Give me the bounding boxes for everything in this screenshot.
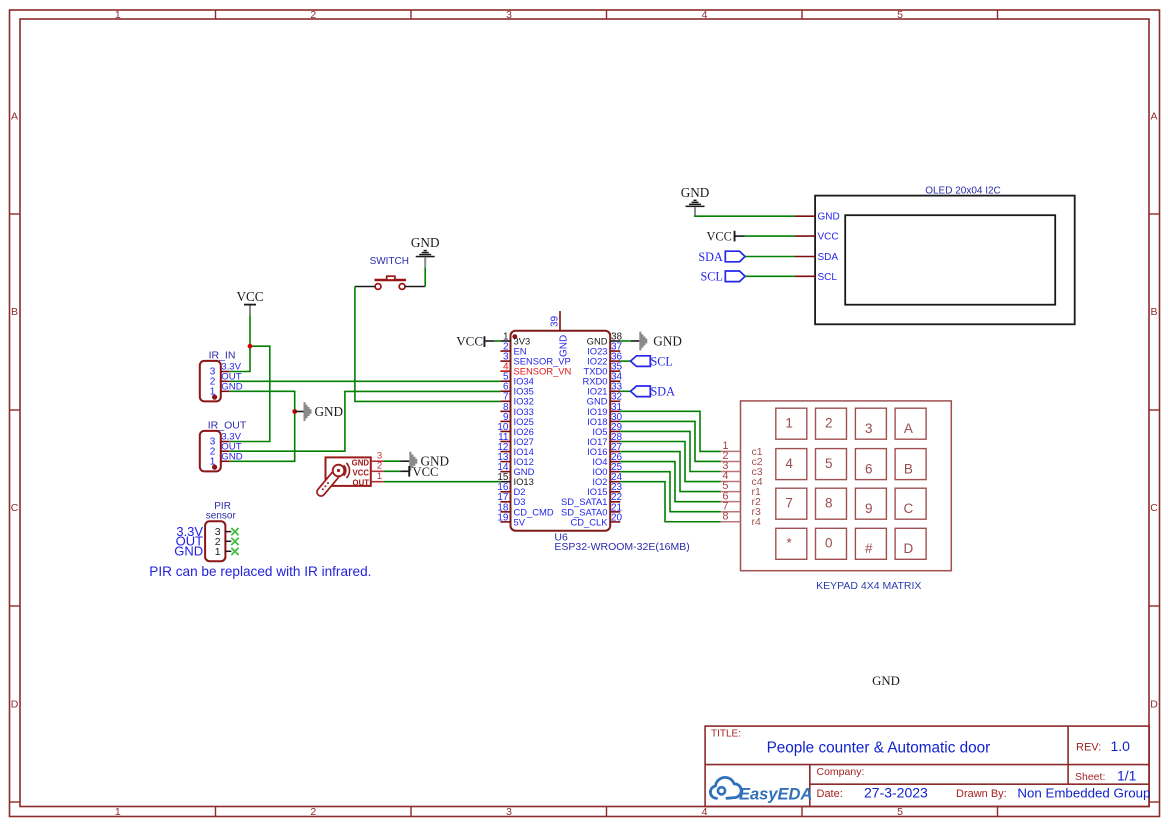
svg-text:VCC: VCC bbox=[413, 465, 439, 479]
svg-text:C: C bbox=[11, 502, 19, 514]
ground GND (OLED) bbox=[681, 185, 710, 217]
ESP32 module U6 body bbox=[511, 331, 611, 531]
wire U6 IO pin 25 to keypad pin 7 bbox=[620, 472, 721, 512]
U6 pin 28 IO17 bbox=[587, 432, 622, 447]
svg-text:C: C bbox=[904, 501, 914, 516]
power VCC (OLED) bbox=[707, 229, 736, 243]
svg-text:SCL: SCL bbox=[700, 270, 722, 284]
keypad pin 4 c4 bbox=[721, 470, 763, 488]
svg-text:SDA: SDA bbox=[818, 252, 839, 263]
key 4 bbox=[776, 449, 807, 480]
svg-text:Sheet:: Sheet: bbox=[1075, 771, 1105, 783]
svg-text:2: 2 bbox=[310, 9, 316, 21]
svg-text:SCL: SCL bbox=[651, 355, 673, 369]
svg-text:5V: 5V bbox=[514, 516, 526, 527]
wire U6 pin38 to GND bbox=[620, 340, 631, 342]
svg-text:5: 5 bbox=[825, 456, 833, 471]
U6 pin 26 IO4 bbox=[592, 452, 622, 467]
svg-text:VCC: VCC bbox=[456, 333, 483, 348]
svg-text:r4: r4 bbox=[752, 516, 761, 528]
wire U6 IO pin 24 to keypad pin 8 bbox=[620, 482, 721, 522]
key C bbox=[895, 488, 926, 519]
ground GND (above switch) bbox=[411, 235, 440, 267]
svg-text:D: D bbox=[904, 541, 914, 556]
U6 pin 2 EN bbox=[500, 341, 526, 356]
switch SWITCH bbox=[355, 256, 425, 290]
svg-text:1: 1 bbox=[215, 546, 221, 558]
svg-text:VCC: VCC bbox=[707, 229, 732, 243]
svg-text:27-3-2023: 27-3-2023 bbox=[864, 784, 928, 800]
svg-text:A: A bbox=[11, 111, 18, 123]
svg-text:sensor: sensor bbox=[206, 510, 237, 521]
U6 pin 18 CD_CMD bbox=[497, 502, 553, 517]
svg-text:GND: GND bbox=[315, 404, 344, 419]
keypad pin 2 c2 bbox=[721, 450, 763, 468]
U6 pin 36 IO22 bbox=[587, 352, 622, 367]
svg-text:Non Embedded Group: Non Embedded Group bbox=[1017, 785, 1150, 800]
svg-text:GND: GND bbox=[411, 235, 440, 250]
power VCC (PIR) bbox=[408, 465, 438, 479]
U6 pin 19 5V bbox=[497, 512, 525, 527]
svg-text:Drawn By:: Drawn By: bbox=[956, 788, 1007, 800]
U6 pin 17 D3 bbox=[497, 492, 525, 507]
net flag SCL (OLED) bbox=[700, 270, 745, 284]
svg-text:IR_IN: IR_IN bbox=[209, 350, 236, 362]
svg-text:5: 5 bbox=[897, 806, 903, 818]
wire VCC to OLED VCC bbox=[736, 235, 745, 237]
key 9 bbox=[855, 488, 886, 519]
svg-text:D: D bbox=[11, 699, 19, 711]
svg-text:*: * bbox=[786, 536, 792, 551]
svg-text:39: 39 bbox=[550, 315, 561, 327]
keypad pin 3 c3 bbox=[721, 460, 763, 478]
svg-text:1: 1 bbox=[115, 806, 121, 818]
svg-text:2: 2 bbox=[377, 461, 382, 472]
svg-text:GND: GND bbox=[653, 334, 682, 349]
svg-text:GND: GND bbox=[559, 335, 570, 357]
svg-text:3: 3 bbox=[506, 806, 512, 818]
title block bbox=[705, 726, 1150, 806]
svg-text:A: A bbox=[904, 421, 913, 436]
U6 pin 7 IO32 bbox=[500, 392, 533, 407]
wire IR_OUT OUT to U6 IO35 bbox=[230, 391, 500, 451]
EasyEDA logo bbox=[710, 777, 812, 803]
U6 pin 12 IO14 bbox=[497, 442, 533, 457]
OLED pin VCC bbox=[795, 235, 815, 237]
wire U6 IO21 to SDA flag bbox=[620, 390, 630, 392]
keypad pin 1 c1 bbox=[721, 440, 763, 458]
net flag SDA bbox=[631, 385, 676, 399]
svg-text:VCC: VCC bbox=[236, 289, 263, 304]
U6 pin 23 IO15 bbox=[587, 482, 622, 497]
U6 pin 6 IO35 bbox=[500, 382, 533, 397]
key 8 bbox=[816, 488, 847, 519]
key 7 bbox=[776, 488, 807, 519]
svg-text:1/1: 1/1 bbox=[1117, 767, 1137, 783]
svg-text:IR_OUT: IR_OUT bbox=[208, 419, 247, 431]
svg-text:GND: GND bbox=[872, 674, 900, 688]
svg-text:8: 8 bbox=[722, 510, 728, 522]
key 5 bbox=[816, 449, 847, 480]
svg-text:VCC: VCC bbox=[353, 468, 370, 477]
key 1 bbox=[776, 408, 807, 439]
wire U6 IO pin 27 to keypad pin 5 bbox=[620, 452, 721, 492]
wire VCC to U6 pin1 bbox=[485, 340, 494, 342]
ground GND (mid-left) bbox=[304, 402, 344, 421]
wire VCC symbol to junction bbox=[249, 315, 251, 346]
key # bbox=[855, 528, 886, 559]
svg-text:People counter & Automatic doo: People counter & Automatic door bbox=[767, 739, 991, 756]
wire PIR GND to GND symbol bbox=[384, 460, 401, 462]
wire SWITCH right to GND bbox=[424, 267, 426, 286]
key 6 bbox=[855, 449, 886, 480]
svg-text:3: 3 bbox=[865, 421, 873, 436]
wire U6 IO pin 30 to keypad pin 2 bbox=[620, 421, 721, 461]
key * bbox=[776, 528, 807, 559]
svg-text:1: 1 bbox=[377, 471, 382, 482]
U6 pin 5 IO34 bbox=[500, 372, 533, 387]
svg-text:1: 1 bbox=[785, 416, 793, 431]
keypad pin 6 r2 bbox=[721, 490, 761, 508]
U6 pin 20 CD_CLK bbox=[571, 512, 623, 527]
wire SWITCH to U6 IO32 bbox=[355, 287, 501, 402]
U6 pin 11 IO27 bbox=[498, 432, 534, 447]
U6 pin 24 IO2 bbox=[592, 472, 622, 487]
PIR sensor pin 1 no-connect bbox=[225, 550, 231, 552]
svg-text:5: 5 bbox=[897, 9, 903, 21]
wire junction to IR_IN pin3 bbox=[230, 346, 250, 371]
PIR pin 2 bbox=[371, 470, 384, 472]
U6 pin 25 IO0 bbox=[592, 462, 622, 477]
svg-text:#: # bbox=[865, 541, 873, 556]
svg-text:VCC: VCC bbox=[818, 232, 839, 243]
U6 pin 15 IO13 bbox=[497, 472, 533, 487]
svg-text:7: 7 bbox=[785, 496, 793, 511]
U6 pin 34 RXD0 bbox=[582, 372, 622, 387]
U6 pin 4 SENSOR_VN bbox=[500, 362, 571, 377]
ground GND (PIR) bbox=[409, 452, 449, 471]
wire junction to GND symbol bbox=[295, 411, 304, 413]
OLED pin SDA bbox=[795, 256, 815, 258]
svg-text:SDA: SDA bbox=[651, 385, 676, 399]
svg-text:9: 9 bbox=[865, 501, 873, 516]
junction VCC net bbox=[248, 344, 253, 349]
svg-text:2: 2 bbox=[310, 806, 316, 818]
U6 pin 16 D2 bbox=[497, 482, 525, 497]
wire U6 IO pin 28 to keypad pin 4 bbox=[620, 442, 721, 482]
U6 pin 27 IO16 bbox=[587, 442, 622, 457]
PIR pin 3 bbox=[371, 460, 384, 462]
U6 pin 8 IO33 bbox=[500, 402, 533, 417]
svg-text:GND: GND bbox=[352, 458, 370, 467]
PIR motion sensor module bbox=[321, 451, 384, 492]
wire PIR VCC to VCC symbol bbox=[384, 470, 401, 472]
ground GND (U6 pin38) bbox=[639, 332, 682, 351]
connector IR_OUT bbox=[200, 419, 247, 471]
svg-text:EasyEDA: EasyEDA bbox=[739, 785, 812, 803]
svg-text:4: 4 bbox=[702, 9, 708, 21]
svg-text:Date:: Date: bbox=[817, 788, 843, 800]
U6 pin 31 IO19 bbox=[587, 402, 622, 417]
wire IR_IN GND to IR_OUT GND bbox=[230, 391, 295, 461]
wire U6 IO pin 26 to keypad pin 6 bbox=[620, 462, 721, 502]
wire U6 IO pin 29 to keypad pin 3 bbox=[620, 431, 721, 471]
keypad 4x4 matrix bbox=[741, 401, 952, 571]
U6 pin 10 IO26 bbox=[497, 422, 533, 437]
svg-text:GND: GND bbox=[681, 185, 710, 200]
key 2 bbox=[816, 408, 847, 439]
svg-text:B: B bbox=[1150, 306, 1157, 318]
U6 pin 37 IO23 bbox=[587, 341, 622, 356]
keypad pin 7 r3 bbox=[721, 500, 761, 518]
svg-text:B: B bbox=[904, 461, 913, 476]
svg-text:SDA: SDA bbox=[698, 250, 723, 264]
svg-text:TITLE:: TITLE: bbox=[711, 729, 741, 740]
svg-text:KEYPAD 4X4 MATRIX: KEYPAD 4X4 MATRIX bbox=[816, 580, 921, 592]
U6 pin 38 GND bbox=[587, 331, 623, 346]
svg-text:0: 0 bbox=[825, 536, 833, 551]
svg-text:A: A bbox=[1150, 111, 1157, 123]
OLED 20x04 I2C module bbox=[795, 186, 1075, 325]
U6 pin 39 GND top bbox=[550, 311, 570, 357]
svg-text:6: 6 bbox=[865, 461, 873, 476]
U6 pin 33 IO21 bbox=[587, 382, 622, 397]
wire SCL flag to OLED SCL bbox=[745, 275, 795, 277]
keypad pin 8 r4 bbox=[721, 510, 761, 528]
svg-text:1.0: 1.0 bbox=[1111, 738, 1131, 754]
U6 pin 35 TXD0 bbox=[584, 362, 623, 377]
U6 pin 13 IO12 bbox=[497, 452, 533, 467]
svg-text:4: 4 bbox=[785, 456, 793, 471]
key B bbox=[895, 449, 926, 480]
PIR sensor pin 3 no-connect bbox=[225, 531, 231, 533]
OLED pin GND bbox=[795, 215, 815, 217]
svg-text:20: 20 bbox=[611, 512, 623, 523]
svg-text:3: 3 bbox=[506, 9, 512, 21]
svg-text:REV:: REV: bbox=[1076, 742, 1101, 754]
power VCC (U6 pin1) bbox=[456, 333, 485, 348]
key D bbox=[895, 528, 926, 559]
svg-text:1: 1 bbox=[115, 9, 121, 21]
wire GND to OLED GND bbox=[695, 215, 795, 218]
U6 pin 9 IO25 bbox=[500, 412, 533, 427]
svg-text:19: 19 bbox=[497, 512, 509, 523]
keypad pin 5 r1 bbox=[721, 480, 761, 498]
power VCC symbol (left area) bbox=[236, 289, 263, 315]
key A bbox=[895, 408, 926, 439]
net flag SDA (OLED) bbox=[698, 250, 745, 264]
net flag SCL bbox=[631, 355, 673, 369]
svg-text:C: C bbox=[1150, 502, 1158, 514]
svg-text:B: B bbox=[11, 306, 18, 318]
wire IR_IN OUT to U6 IO34 bbox=[230, 380, 500, 382]
connector PIR sensor bbox=[174, 501, 238, 561]
svg-text:OUT: OUT bbox=[353, 479, 370, 488]
svg-text:D: D bbox=[1150, 699, 1158, 711]
key 0 bbox=[816, 528, 847, 559]
svg-text:2: 2 bbox=[825, 416, 833, 431]
U6 pin 32 GND bbox=[587, 392, 623, 407]
wire PIR OUT to U6 IO13 bbox=[384, 481, 501, 483]
PIR sensor pin 2 no-connect bbox=[225, 540, 231, 542]
connector IR_IN bbox=[200, 350, 243, 402]
svg-text:4: 4 bbox=[702, 806, 708, 818]
OLED pin SCL bbox=[795, 275, 815, 277]
U6 pin 22 SD_SATA1 bbox=[561, 492, 623, 507]
wire U6 IO22 to SCL flag bbox=[620, 360, 630, 362]
svg-text:ESP32-WROOM-32E(16MB): ESP32-WROOM-32E(16MB) bbox=[554, 541, 689, 553]
U6 pin 1 3V3 bbox=[500, 331, 530, 346]
U6 pin 14 GND bbox=[497, 462, 534, 477]
svg-text:SCL: SCL bbox=[818, 272, 838, 283]
svg-text:CD_CLK: CD_CLK bbox=[571, 516, 609, 527]
wire junction to IR_OUT pin3 bbox=[230, 346, 270, 441]
svg-text:8: 8 bbox=[825, 496, 833, 511]
svg-text:SWITCH: SWITCH bbox=[370, 256, 409, 267]
wire U6 IO pin 31 to keypad pin 1 bbox=[620, 411, 721, 451]
U6 pin 3 SENSOR_VP bbox=[500, 352, 570, 367]
U6 pin 21 SD_SATA0 bbox=[561, 502, 623, 517]
key 3 bbox=[855, 408, 886, 439]
U6 pin 29 IO5 bbox=[592, 422, 622, 437]
svg-text:PIR can be replaced with IR in: PIR can be replaced with IR infrared. bbox=[149, 564, 371, 579]
PIR pin 1 bbox=[371, 481, 384, 483]
svg-text:Company:: Company: bbox=[817, 766, 865, 778]
svg-text:GND: GND bbox=[818, 212, 840, 223]
svg-text:GND: GND bbox=[174, 544, 203, 559]
U6 pin 30 IO18 bbox=[587, 412, 622, 427]
junction GND net bbox=[292, 409, 297, 414]
wire SDA flag to OLED SDA bbox=[745, 256, 795, 258]
